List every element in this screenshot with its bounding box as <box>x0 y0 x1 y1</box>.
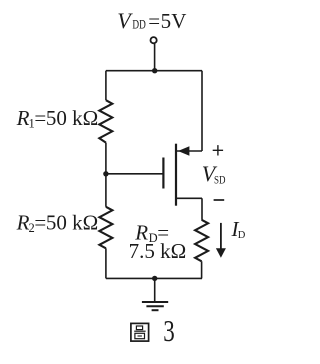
wire RD bottom to bottom rail <box>201 261 203 278</box>
wire R2 bottom to bottom rail <box>105 248 107 278</box>
node top junction dot <box>152 68 157 73</box>
svg-text:R: R <box>16 210 30 234</box>
caption glyph "tu" (figure) drawn <box>131 323 149 341</box>
ground bar 2 <box>146 305 163 307</box>
ground bar 3 <box>152 309 159 311</box>
wire left branch upper (top rail to R1) <box>105 71 107 101</box>
transistor Q1 gate bar <box>162 158 164 189</box>
svg-text:=: = <box>148 9 160 33</box>
wire R1 bottom to gate node <box>105 143 107 174</box>
svg-text:=: = <box>34 210 46 234</box>
svg-text:=: = <box>34 106 46 130</box>
resistor R1 <box>99 100 112 142</box>
svg-text:7.5 kΩ: 7.5 kΩ <box>129 239 187 263</box>
transistor Q1 source arrowhead <box>178 146 189 155</box>
node gate junction dot <box>103 171 108 176</box>
svg-text:50 kΩ: 50 kΩ <box>46 106 98 130</box>
current arrow ID line <box>220 223 222 250</box>
wire bottom rail <box>106 277 202 279</box>
plus sign (VSD +) <box>213 145 223 155</box>
wire right branch upper (source to top rail) <box>201 71 203 151</box>
svg-text:V: V <box>171 9 186 33</box>
svg-text:V: V <box>117 8 133 33</box>
ground bar 1 <box>142 301 168 303</box>
minus sign (VSD -) <box>214 199 225 201</box>
node bottom junction dot <box>152 276 157 281</box>
svg-text:3: 3 <box>163 313 175 348</box>
transistor Q1 drain lead <box>176 197 202 199</box>
wire gate lead <box>106 173 163 175</box>
wire top rail <box>106 70 202 72</box>
wire gate node to R2 <box>105 174 107 207</box>
svg-text:50 kΩ: 50 kΩ <box>46 210 98 234</box>
current arrow ID head <box>216 248 226 257</box>
node VDD terminal circle <box>151 37 157 43</box>
svg-text:DD: DD <box>132 18 145 32</box>
svg-text:R: R <box>16 106 30 130</box>
resistor RD <box>195 220 208 261</box>
wire drain down to RD <box>201 198 203 220</box>
ground stem wire <box>154 278 156 301</box>
resistor R2 <box>99 207 112 249</box>
transistor Q1 source lead <box>176 150 202 152</box>
svg-text:D: D <box>238 230 246 241</box>
svg-text:SD: SD <box>214 173 226 187</box>
wire from VDD terminal down to top rail <box>154 44 156 71</box>
svg-text:5: 5 <box>161 9 172 33</box>
transistor Q1 channel bar <box>175 144 177 206</box>
